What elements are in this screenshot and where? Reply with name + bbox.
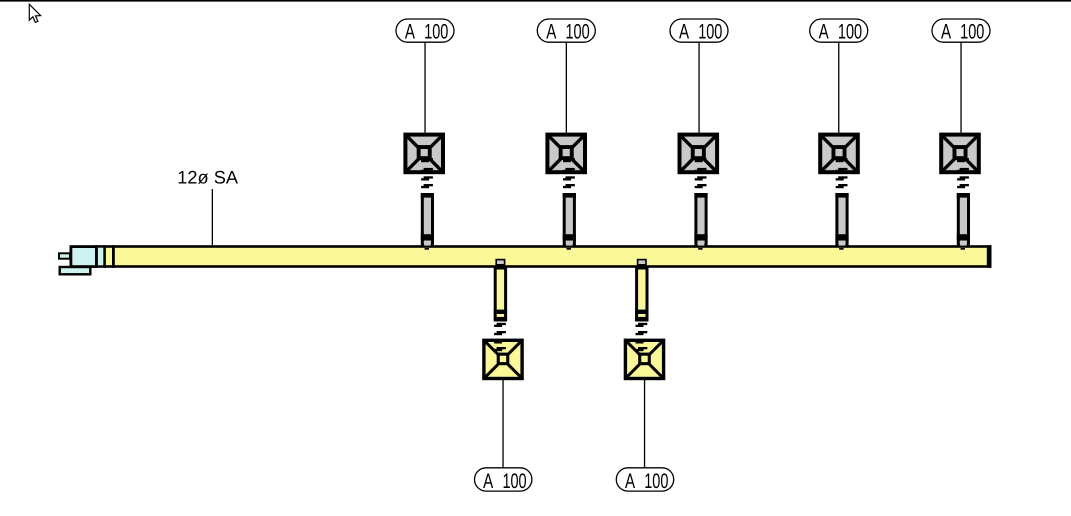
duct joint divider 1 [95, 245, 98, 268]
duct joint divider 2 [103, 245, 106, 268]
svg-text:100: 100 [566, 20, 590, 43]
flex duct zigzag dash 3 (top run 3) [695, 176, 707, 180]
flex duct zigzag dash 1 (top run 2) [563, 158, 575, 162]
svg-text:A: A [546, 20, 556, 43]
svg-text:100: 100 [838, 20, 862, 43]
flex duct zigzag dash 2 (top run 1) [421, 168, 433, 172]
duct takeoff cap inside duct (bottom run 1) [496, 260, 504, 265]
flex duct zigzag dash 4 (top run 4) [836, 184, 848, 188]
ceiling diffuser #1 (top, gray) [405, 134, 444, 173]
flex duct zigzag dash 3 (top run 5) [957, 176, 969, 180]
svg-text:100: 100 [644, 470, 668, 493]
main supply duct body (yellow) [97, 247, 991, 267]
duct drop #2 (bottom) [635, 268, 648, 320]
flex duct zigzag dash 1 (top run 5) [957, 158, 969, 162]
svg-text:A: A [405, 20, 415, 43]
duct drop / takeoff #3 (top) [694, 193, 707, 250]
diffuser tag A100 #4 (top) [810, 19, 868, 43]
svg-text:A: A [483, 470, 493, 493]
svg-text:12ø SA: 12ø SA [177, 167, 239, 187]
flex duct zigzag dash 4 (top run 5) [957, 184, 969, 188]
top window edge bar [0, 0, 1071, 2]
diffuser tag A100 #5 (top) [932, 19, 990, 43]
diffuser tag A100 #2 (bottom) [616, 468, 673, 493]
tag leader line #3 (top) [698, 42, 699, 133]
flex duct zigzag dash 2 (top run 4) [836, 168, 848, 172]
flex duct zigzag dash 2 (bottom run 2) [636, 331, 648, 335]
mouse cursor arrow [29, 4, 40, 22]
duct drop #1 (bottom) [494, 268, 507, 320]
diffuser tag A100 #3 (top) [670, 19, 728, 43]
flex duct zigzag dash 2 (top run 3) [695, 168, 707, 172]
tag leader line #2 (top) [566, 42, 567, 133]
svg-text:100: 100 [698, 20, 722, 43]
duct segment (cyan) near inlet [98, 248, 104, 265]
ceiling diffuser #5 (top, gray) [941, 134, 980, 173]
ceiling diffuser #2 (top, gray) [547, 134, 586, 173]
diffuser tag A100 #1 (bottom) [475, 468, 532, 493]
flex duct zigzag dash 3 (top run 1) [421, 176, 433, 180]
diffuser tag A100 #1 (top) [396, 19, 454, 43]
flex duct zigzag dash 3 (bottom run 1) [494, 339, 506, 343]
ceiling diffuser #4 (top, gray) [820, 134, 859, 173]
flex duct zigzag dash 4 (top run 3) [695, 184, 707, 188]
flex duct zigzag dash 3 (bottom run 2) [636, 339, 648, 343]
tag leader line #1 (top) [424, 42, 425, 133]
ceiling diffuser #3 (top, gray) [679, 134, 718, 173]
flex duct zigzag dash 1 (top run 1) [421, 158, 433, 162]
flex duct zigzag dash 4 (top run 1) [421, 184, 433, 188]
svg-text:A: A [941, 20, 951, 43]
svg-text:A: A [819, 20, 829, 43]
inlet small left tab [59, 253, 70, 258]
flex duct zigzag dash 4 (bottom run 2) [636, 347, 648, 351]
svg-text:100: 100 [960, 20, 984, 43]
duct drop / takeoff #2 (top) [563, 193, 576, 250]
flex duct zigzag dash 2 (bottom run 1) [494, 331, 506, 335]
flex duct zigzag dash 2 (top run 2) [563, 168, 575, 172]
tag leader line #4 (top) [838, 42, 839, 133]
diffuser tag A100 #2 (top) [537, 19, 595, 43]
svg-text:A: A [625, 470, 635, 493]
tag leader line #2 (bottom) [644, 380, 645, 468]
svg-text:A: A [679, 20, 689, 43]
inlet fitting box (cyan) [71, 247, 97, 267]
duct takeoff cap inside duct (bottom run 2) [638, 260, 646, 265]
duct drop / takeoff #1 (top) [421, 193, 434, 250]
ceiling diffuser #2 (bottom, yellow) [625, 340, 664, 379]
inlet bottom flange plate [60, 267, 91, 274]
ceiling diffuser #1 (bottom, yellow) [483, 340, 522, 379]
flex duct zigzag dash 4 (top run 2) [563, 184, 575, 188]
duct label leader line [212, 189, 213, 256]
svg-text:100: 100 [502, 470, 526, 493]
tag leader line #1 (bottom) [502, 380, 503, 468]
svg-text:100: 100 [424, 20, 448, 43]
flex duct zigzag dash 1 (top run 4) [836, 158, 848, 162]
flex duct zigzag dash 4 (bottom run 1) [494, 347, 506, 351]
flex duct zigzag dash 3 (top run 2) [563, 176, 575, 180]
flex duct zigzag dash 1 (bottom run 1) [494, 323, 506, 327]
flex duct zigzag dash 1 (bottom run 2) [636, 323, 648, 327]
duct drop / takeoff #4 (top) [835, 193, 848, 250]
flex duct zigzag dash 2 (top run 5) [957, 168, 969, 172]
duct joint divider 3 [112, 245, 115, 268]
flex duct zigzag dash 1 (top run 3) [695, 158, 707, 162]
duct drop / takeoff #5 (top) [957, 193, 970, 250]
duct right end cap [987, 245, 992, 268]
flex duct zigzag dash 3 (top run 4) [836, 176, 848, 180]
tag leader line #5 (top) [960, 42, 961, 133]
